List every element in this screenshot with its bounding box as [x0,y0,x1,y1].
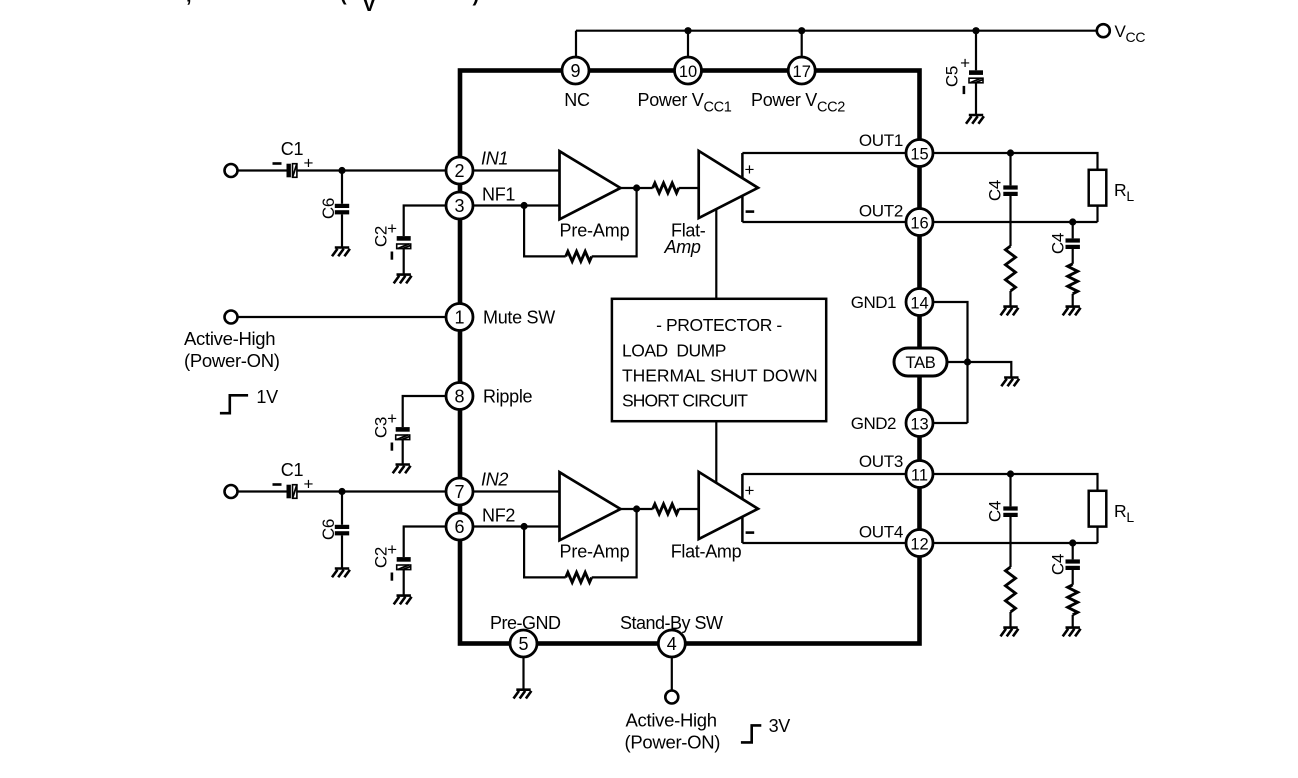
ground C2 (ch2) [394,596,412,605]
node junction C5 tap [972,27,979,34]
wire C6 bottom (ch2) [341,535,343,568]
svg-text:GND2: GND2 [851,414,896,433]
pin 14 [906,289,933,316]
wire feedback ch1 [524,188,637,256]
resistor RL (ch1) [1089,170,1107,206]
wire feedback ch2 [524,509,637,577]
op-amp Flat-Amp (ch1) [699,151,758,218]
svg-text:9: 9 [570,61,580,81]
resistor feedback ch2 [566,572,592,582]
ground C4b (ch2) [1063,628,1081,637]
wire C4a to ground (ch1) [1009,291,1011,307]
capacitor C6 (ch2) [335,525,349,529]
wire pin5 to ground [522,657,524,690]
wire OUT4 [742,542,906,544]
svg-text:+: + [960,54,970,73]
svg-text:,: , [186,0,192,7]
svg-text:Stand-By SW: Stand-By SW [620,613,723,633]
capacitor C6 (ch1) [335,204,349,208]
pin 9 [562,57,589,84]
ground C3 [393,465,411,474]
node junction preamp1 out [633,184,640,191]
wire C4a lower (ch2) [1009,517,1011,567]
svg-text:): ) [473,0,480,7]
pin 7 [446,478,473,505]
svg-text:7: 7 [454,482,464,502]
wire OUT3 [742,473,906,475]
capacitor C4a (ch2) [1003,506,1017,510]
resistor C4b chain (ch2) [1068,585,1078,615]
wire OUT4 right [933,542,1098,544]
svg-text:Pre-Amp: Pre-Amp [560,221,630,241]
wire C4b lower (ch1) [1072,249,1074,264]
pin 13 [906,410,933,437]
wire C5 bottom [975,83,977,115]
ground C4b (ch1) [1063,307,1081,316]
wire preamp1 output [621,187,653,189]
svg-text:10: 10 [679,63,697,81]
wire flatamp1 to protector [715,209,717,299]
pin 10 [675,57,702,84]
resistor preamp2-flatamp [653,504,679,514]
resistor RL (ch2) [1089,491,1107,527]
terminal Mute SW input [225,311,238,324]
svg-text:5: 5 [518,634,528,654]
wire C6 top (ch1) [341,171,343,204]
svg-text:14: 14 [910,295,928,313]
node junction NF2 [521,523,528,530]
svg-text:NC: NC [564,90,590,110]
wire pin 17 riser [801,31,803,58]
wire OUT2 [742,221,906,223]
node junction C6 tap (ch1) [338,167,345,174]
ground TAB [1001,378,1019,387]
wire GND1 loop [934,302,968,423]
svg-text:C3: C3 [371,417,390,438]
capacitor C5 [969,70,983,75]
svg-text:C6: C6 [319,198,338,219]
wire pin4 to terminal [671,657,673,691]
svg-text:NF2: NF2 [482,506,515,526]
wire C2 bottom (ch2) [403,570,405,596]
svg-text:4: 4 [667,634,677,654]
capacitor C3 [396,427,410,432]
svg-text:8: 8 [454,387,464,407]
wire RL bottom (ch1) [1096,206,1098,222]
pin 11 [906,461,933,488]
svg-text:C5: C5 [942,66,961,87]
wire C1 to pin2 [297,169,446,171]
pin 12 [906,530,933,557]
capacitor C4b (ch2) [1066,559,1080,563]
label flatamp1 minus [746,210,755,213]
terminal input 2 [225,485,238,498]
ground C6 (ch1) [332,248,350,257]
wire C3 bottom [402,440,404,465]
label C5 minus [963,86,966,94]
terminal standby [665,691,678,704]
ground C6 (ch2) [332,569,350,578]
resistor C4a chain (ch2) [1006,567,1016,612]
wire input2 to C1 [238,490,287,492]
svg-text:Pre-GND: Pre-GND [490,613,561,633]
svg-text:TAB: TAB [906,354,936,372]
node junction C4a tap (ch2) [1007,470,1014,477]
wire NF2 to C2 [404,527,447,558]
pin 1 [446,304,473,331]
svg-text:THERMAL SHUT DOWN: THERMAL SHUT DOWN [622,366,818,386]
svg-text:17: 17 [793,63,811,81]
pin 4 [658,630,685,657]
capacitor C1 (ch2) [287,485,291,499]
capacitor C1 (ch1) [287,164,291,178]
svg-text:16: 16 [910,215,928,233]
label C2 minus (ch1) [391,252,394,260]
svg-text:C4: C4 [985,501,1004,522]
svg-text:Active-High: Active-High [184,328,275,349]
op-amp Pre-Amp (ch1) [560,151,621,219]
node junction preamp2 out [633,505,640,512]
resistor C4a chain (ch1) [1006,246,1016,291]
pin 6 [446,513,473,540]
wire C4a upper (ch2) [1009,474,1011,506]
svg-text:15: 15 [910,146,928,164]
svg-text:IN1: IN1 [481,149,508,169]
wire TAB to ground [947,362,1011,378]
label flatamp2 minus [746,531,755,534]
svg-text:3: 3 [454,196,464,216]
wire input1 to C1 [238,169,287,171]
wire C4b to ground (ch2) [1072,615,1074,628]
svg-text:(Power-ON): (Power-ON) [625,732,721,753]
svg-text:Amp: Amp [664,237,701,257]
wire GND2 stub [934,422,968,424]
wire preamp2 output [621,508,653,510]
wire C2 bottom (ch1) [403,249,405,275]
op-amp Pre-Amp (ch2) [560,472,621,540]
pin 3 [446,192,473,219]
label C2 minus (ch2) [391,573,394,581]
ground C4a (ch2) [1001,628,1019,637]
ground pin 5 [514,690,532,699]
IC boundary [460,71,920,644]
svg-text:+: + [744,481,754,500]
wire OUT3 right [933,474,1098,491]
svg-text:+: + [744,160,754,179]
symbol step 3V [741,725,761,742]
wire flatamp2 bracket [741,474,744,543]
svg-text:C6: C6 [319,519,338,540]
svg-text:11: 11 [911,467,928,485]
svg-text:Mute SW: Mute SW [483,308,555,328]
wire C5 top [975,31,977,71]
node junction C6 tap (ch2) [338,488,345,495]
pin 15 [906,140,933,167]
wire OUT1 right [933,153,1098,170]
wire C4a lower (ch1) [1009,196,1011,246]
pin 2 [446,157,473,184]
wire NF1 to C2 [404,206,447,237]
svg-text:13: 13 [910,416,928,434]
wire C4a to ground (ch2) [1009,612,1011,628]
svg-text:V: V [363,0,377,16]
node junction NF1 [521,202,528,209]
wire OUT2 right [933,221,1098,223]
label C1 minus (ch1) [273,162,282,165]
svg-text:C4: C4 [1048,554,1067,575]
svg-text:12: 12 [910,536,928,554]
label C3 minus [391,443,394,451]
wire C6 bottom (ch1) [341,214,343,247]
wire resistor to flatamp1 [679,187,699,189]
wire C1 to pin7 [297,490,446,492]
wire flatamp1 bracket [741,153,744,222]
ground C2 (ch1) [394,275,412,284]
svg-text:C1: C1 [281,139,304,159]
node junction C4a tap (ch1) [1007,149,1014,156]
wire IN2 to preamp [473,490,559,492]
wire IN1 to preamp [473,169,559,171]
svg-text:(: ( [340,0,347,6]
svg-text:SHORT CIRCUIT: SHORT CIRCUIT [622,391,748,411]
svg-text:(Power-ON): (Power-ON) [184,350,280,371]
wire VCC top rail [576,30,1097,32]
svg-text:IN2: IN2 [481,470,508,490]
op-amp Flat-Amp (ch2) [699,472,758,539]
pin 17 [788,57,815,84]
svg-text:C4: C4 [1048,233,1067,254]
svg-text:Active-High: Active-High [626,710,717,731]
svg-text:C1: C1 [281,460,304,480]
pin 16 [906,209,933,236]
pin 8 [446,383,473,410]
node junction C4b tap (ch2) [1069,539,1076,546]
wire pin 9 riser [575,31,577,58]
wire C4a upper (ch1) [1009,153,1011,185]
wire RL bottom (ch2) [1096,527,1098,543]
terminal VCC [1097,24,1110,37]
capacitor C2 (ch1) [397,236,411,241]
svg-text:OUT2: OUT2 [859,202,903,221]
wire C4b upper (ch2) [1072,543,1074,559]
svg-text:1V: 1V [256,387,278,407]
node junction C4b tap (ch1) [1069,218,1076,225]
wire ripple to C3 [403,396,447,427]
ground C4a (ch1) [1001,307,1019,316]
wire pin 10 riser [687,31,689,58]
svg-text:2: 2 [454,161,464,181]
svg-text:Pre-Amp: Pre-Amp [560,542,630,562]
svg-text:C2: C2 [371,547,390,568]
svg-text:C2: C2 [371,226,390,247]
capacitor C4b (ch1) [1066,238,1080,242]
block PROTECTOR [612,299,826,421]
svg-text:C4: C4 [985,180,1004,201]
ground C5 [966,115,984,124]
wire C4b lower (ch2) [1072,570,1074,585]
wire C6 top (ch2) [341,492,343,525]
wire C4b to ground (ch1) [1072,294,1074,307]
wire C4b upper (ch1) [1072,222,1074,238]
svg-text:Flat-Amp: Flat-Amp [671,542,742,562]
symbol step 1V [220,395,248,413]
pin 5 [510,630,537,657]
label C1 minus (ch2) [273,483,282,486]
svg-text:GND1: GND1 [851,293,896,312]
resistor C4b chain (ch1) [1068,264,1078,294]
node junction pin17 riser [798,27,805,34]
svg-text:6: 6 [454,517,464,537]
svg-text:3V: 3V [769,716,791,736]
wire protector to flatamp2 [715,421,717,483]
node junction TAB [964,358,971,365]
svg-text:OUT1: OUT1 [859,131,903,150]
wire NF2 to preamp [473,525,559,527]
resistor preamp1-flatamp [653,183,679,193]
wire OUT1 [742,152,906,154]
terminal input 1 [225,164,238,177]
capacitor C4a (ch1) [1003,185,1017,189]
wire resistor to flatamp2 [679,508,699,510]
svg-text:1: 1 [454,308,464,328]
svg-text:NF1: NF1 [482,185,515,205]
svg-text:Ripple: Ripple [483,387,533,407]
capacitor C2 (ch2) [397,557,411,562]
svg-text:LOAD DUMP: LOAD DUMP [622,341,726,361]
pin TAB [894,348,947,376]
resistor feedback ch1 [566,251,592,261]
svg-text:OUT3: OUT3 [859,452,903,471]
node junction pin10 riser [684,27,691,34]
svg-text:OUT4: OUT4 [859,523,903,542]
svg-text:- PROTECTOR -: - PROTECTOR - [656,315,782,335]
wire mute [238,316,447,318]
wire NF1 to preamp [473,204,559,206]
